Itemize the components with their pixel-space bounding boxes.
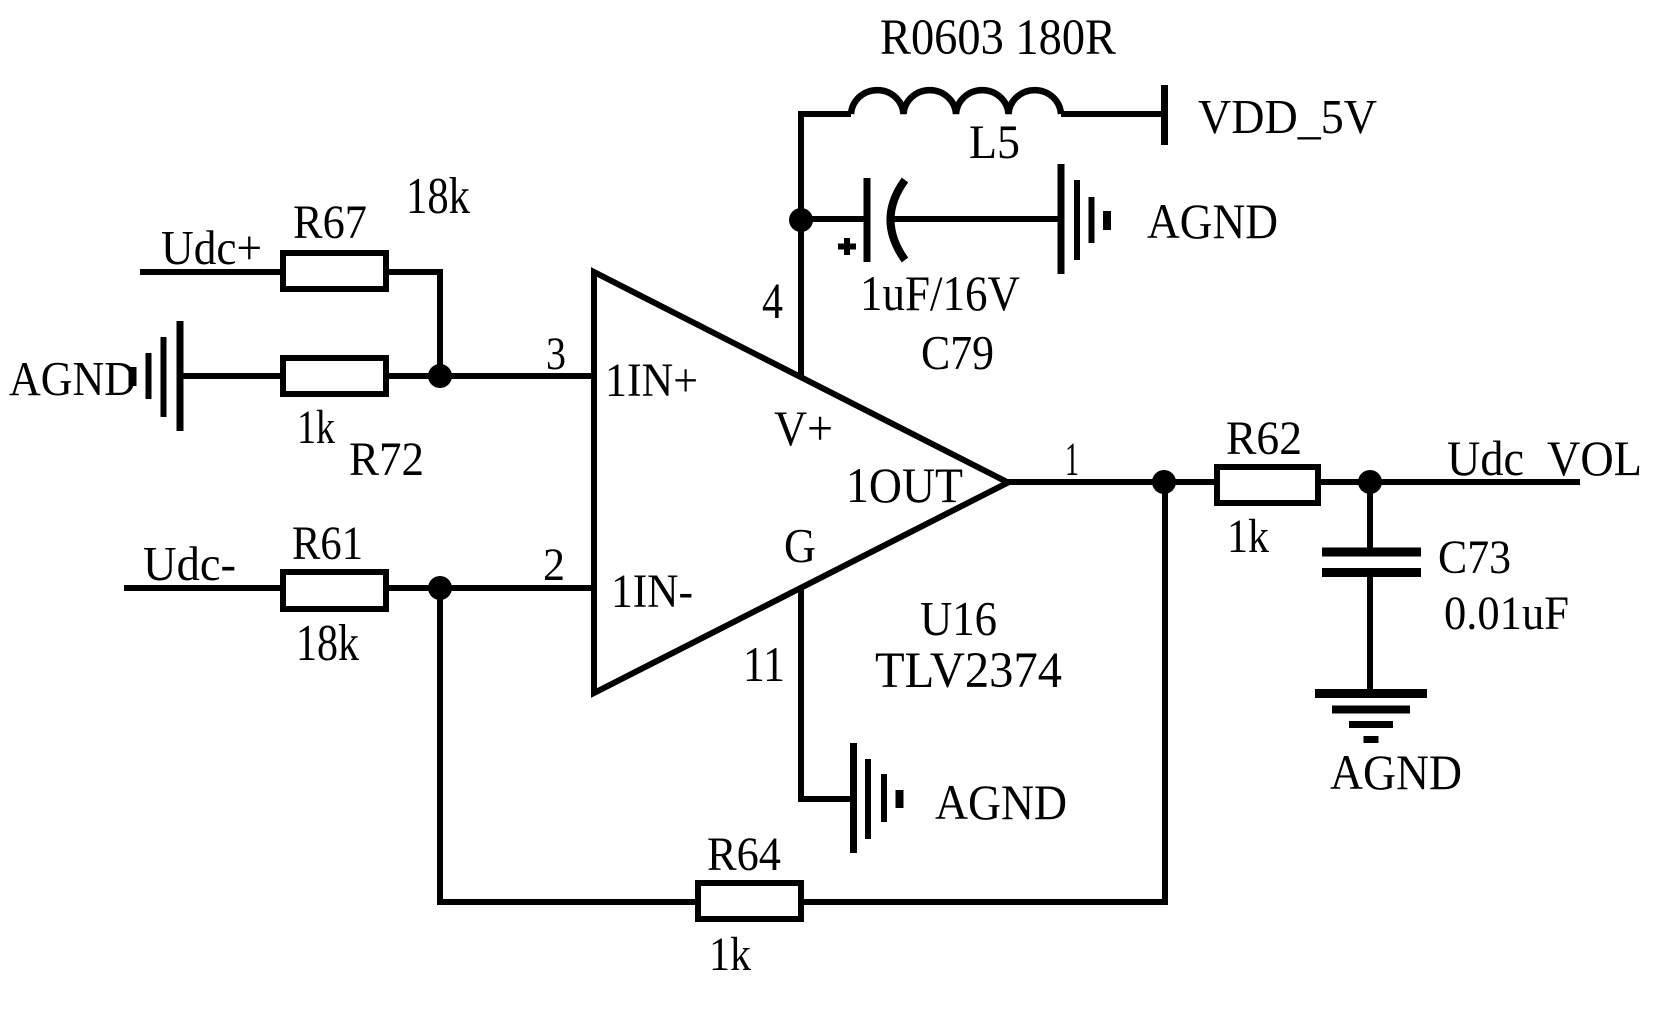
wire L5 to VDD bar (1061, 111, 1161, 117)
capacitor C79 curved plate (891, 180, 906, 260)
svg-text:AGND: AGND (1147, 193, 1278, 249)
svg-text:R67: R67 (293, 196, 367, 249)
node C junction (789, 208, 813, 232)
node B junction (428, 576, 452, 600)
svg-text:11: 11 (743, 636, 785, 692)
wire C79 to AGND (892, 216, 1058, 222)
svg-text:Udc-: Udc- (143, 536, 236, 591)
svg-text:R64: R64 (707, 828, 781, 881)
svg-text:Udc_VOL: Udc_VOL (1447, 430, 1642, 486)
capacitor C73 plates (1322, 552, 1421, 573)
wire node E to C73 (1367, 482, 1373, 548)
svg-text:AGND: AGND (9, 351, 136, 406)
svg-text:1k: 1k (297, 401, 335, 454)
svg-text:18k: 18k (406, 168, 470, 225)
node E junction (1358, 470, 1382, 494)
svg-text:2: 2 (543, 539, 565, 591)
svg-text:18k: 18k (296, 615, 359, 672)
svg-text:AGND: AGND (1330, 744, 1462, 800)
ground AGND earth (C73) (1315, 694, 1427, 740)
svg-text:C73: C73 (1438, 531, 1511, 584)
svg-text:U16: U16 (920, 591, 997, 646)
wire node A to pin 3 (386, 373, 594, 379)
ground AGND (left, at R72) (133, 321, 181, 431)
ground AGND (C79) (1061, 164, 1107, 274)
svg-text:R62: R62 (1226, 412, 1302, 465)
node D junction (1152, 470, 1176, 494)
wire Udc- lead (124, 585, 283, 591)
svg-text:V+: V+ (774, 400, 833, 456)
wire feedback node B down and across (440, 588, 698, 902)
resistor R72 (283, 358, 386, 394)
inductor L5 (851, 90, 1061, 114)
wire C73 to ground (1367, 576, 1373, 691)
svg-text:0.01uF: 0.01uF (1444, 587, 1569, 640)
svg-text:G: G (784, 518, 816, 573)
svg-text:VDD_5V: VDD_5V (1198, 89, 1377, 144)
svg-text:C79: C79 (921, 325, 994, 380)
resistor R64 (698, 883, 801, 919)
svg-text:4: 4 (762, 274, 783, 330)
op-amp U16 triangle (594, 272, 1008, 693)
svg-text:L5: L5 (969, 116, 1020, 169)
svg-text:TLV2374: TLV2374 (875, 643, 1062, 699)
svg-text:Udc+: Udc+ (161, 220, 262, 275)
wire R64 to output node (801, 482, 1165, 902)
svg-text:R72: R72 (349, 433, 424, 486)
wire R67 output to node A (386, 272, 440, 376)
svg-text:1OUT: 1OUT (846, 457, 963, 513)
capacitor C79 plus sign (838, 238, 856, 255)
resistor R67 (283, 253, 386, 289)
svg-text:1IN-: 1IN- (611, 565, 693, 618)
wire pin 11 to AGND (801, 588, 850, 799)
wire Udc+ lead (140, 269, 283, 275)
wire AGND to R72 (183, 373, 283, 379)
wire node B to pin 2 (386, 585, 594, 591)
svg-text:1: 1 (1065, 433, 1079, 486)
svg-text:AGND: AGND (935, 774, 1067, 830)
capacitor C79 straight plate (864, 178, 871, 262)
resistor R62 (1217, 467, 1318, 503)
svg-text:1k: 1k (1227, 510, 1269, 563)
ground AGND (op-amp pin G) (854, 743, 900, 853)
svg-text:1uF/16V: 1uF/16V (860, 265, 1020, 321)
svg-text:1IN+: 1IN+ (605, 354, 698, 407)
wire node C to C79 plate (801, 216, 864, 222)
wire pin 4 (801, 114, 851, 378)
svg-text:3: 3 (546, 328, 566, 380)
wire R62 to Udc_VOL (1318, 479, 1580, 485)
svg-text:R0603 180R: R0603 180R (880, 10, 1116, 66)
svg-text:R61: R61 (292, 517, 363, 570)
node A junction (428, 364, 452, 388)
power symbol VDD_5V bar (1161, 85, 1168, 145)
resistor R61 (283, 572, 386, 609)
wire output pin 1 segment (1008, 479, 1217, 485)
svg-text:1k: 1k (709, 928, 751, 981)
